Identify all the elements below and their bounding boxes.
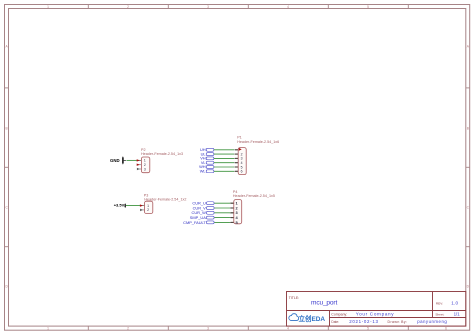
svg-text:1: 1 <box>47 5 49 9</box>
svg-text:Company:: Company: <box>331 312 347 316</box>
svg-text:Header-Female-2.54_1x5: Header-Female-2.54_1x5 <box>233 194 275 198</box>
svg-text:5: 5 <box>367 327 369 331</box>
svg-text:Sheet:: Sheet: <box>435 313 444 317</box>
net label CUR_W <box>192 210 215 215</box>
pin 3 mark <box>137 168 140 171</box>
connector P4 Header-Female-2.54_1x5 <box>230 190 275 225</box>
pin stubs <box>230 203 234 222</box>
wire VL to P1 pin 4 <box>214 162 234 164</box>
connector P2 Header-Female-2.54_1x3 <box>137 148 183 173</box>
svg-text:WL: WL <box>200 169 207 174</box>
svg-text:panyunmeng: panyunmeng <box>417 319 447 324</box>
svg-text:CMP_FAULT: CMP_FAULT <box>183 220 206 225</box>
wire CUR_W to P4 pin 3 <box>214 212 233 214</box>
net label CUR_U <box>192 201 214 206</box>
pin end marks <box>235 150 238 172</box>
svg-text:4: 4 <box>287 327 289 331</box>
net label SMP_UA <box>190 215 214 220</box>
svg-text:3: 3 <box>207 5 209 9</box>
net label CMP_FAULT <box>183 220 214 225</box>
pin 2 mark <box>140 209 143 212</box>
body <box>234 200 242 224</box>
net label VL <box>201 160 214 165</box>
net label WH <box>199 164 214 169</box>
svg-text:1: 1 <box>47 327 49 331</box>
wire SMP_UA to P4 pin 4 <box>214 217 233 219</box>
svg-text:3: 3 <box>144 167 146 171</box>
body <box>141 157 149 173</box>
wire CMP_FAULT to P4 pin 5 <box>214 221 233 223</box>
svg-text:1/1: 1/1 <box>454 312 461 317</box>
connector P3 Header-Female-2.54_1x2 <box>140 194 187 214</box>
svg-text:Header-Female-2.54_1x3: Header-Female-2.54_1x3 <box>141 152 183 156</box>
pin stubs <box>138 160 142 169</box>
svg-text:Header-Female-2.54_1x2: Header-Female-2.54_1x2 <box>144 197 186 201</box>
pin end marks <box>231 203 234 222</box>
wire UH to P1 pin 1 <box>214 149 234 151</box>
svg-text:REV:: REV: <box>436 302 443 306</box>
svg-text:1.0: 1.0 <box>451 301 458 306</box>
svg-text:6: 6 <box>445 327 447 331</box>
net label VH <box>200 156 214 161</box>
pin 1 arrow <box>137 159 140 161</box>
svg-text:+3.5V: +3.5V <box>114 203 125 208</box>
pin 1 arrow <box>140 204 143 206</box>
connector P1 Header-Female-2.54_1x6 <box>234 135 279 174</box>
svg-text:Header-Female-2.54_1x6: Header-Female-2.54_1x6 <box>237 140 279 144</box>
pin 2 arrow <box>137 164 140 166</box>
svg-text:4: 4 <box>287 5 289 9</box>
svg-text:3: 3 <box>207 327 209 331</box>
pin numbers 1 2 <box>147 204 149 212</box>
pin numbers 2 3 4 5 6 <box>241 152 243 173</box>
svg-text:5: 5 <box>367 5 369 9</box>
svg-text:2: 2 <box>127 327 129 331</box>
body <box>145 201 153 213</box>
net label UH <box>200 147 214 152</box>
net flag +3.5V <box>114 203 126 208</box>
wire WL to P1 pin 6 <box>214 170 234 172</box>
wire +3.5V to P3 pin 1 <box>126 205 145 207</box>
svg-text:Your Company: Your Company <box>356 311 395 316</box>
net label UL <box>201 151 214 156</box>
pin numbers 1 2 3 4 5 <box>236 201 239 225</box>
wire CUR_V to P4 pin 2 <box>214 207 233 209</box>
net label CUR_V <box>193 205 215 210</box>
wire VH to P1 pin 3 <box>214 157 234 159</box>
net flag GND <box>110 156 126 164</box>
svg-text:2021-02-13: 2021-02-13 <box>349 319 378 324</box>
svg-text:2: 2 <box>147 208 149 212</box>
svg-text:B: B <box>6 126 8 130</box>
wire CUR_U to P4 pin 1 <box>214 202 233 204</box>
svg-text:2: 2 <box>127 5 129 9</box>
svg-text:TITLE:: TITLE: <box>289 296 300 300</box>
body <box>238 148 246 175</box>
svg-text:Drawn By:: Drawn By: <box>388 320 408 324</box>
net label WL <box>200 169 214 174</box>
wire WH to P1 pin 5 <box>214 166 234 168</box>
pin stubs <box>141 206 145 210</box>
wire UL to P1 pin 2 <box>214 153 234 155</box>
svg-text:Date:: Date: <box>331 320 339 324</box>
svg-text:6: 6 <box>241 170 243 174</box>
svg-text:P1: P1 <box>237 135 242 139</box>
pin stubs <box>234 150 238 172</box>
pin 1 marker <box>239 148 242 151</box>
wire GND to P2 pin 1 <box>127 159 142 161</box>
svg-text:mcu_port: mcu_port <box>311 299 337 306</box>
svg-text:B: B <box>467 126 469 130</box>
pin numbers 1 2 3 <box>144 159 146 172</box>
svg-text:GND: GND <box>110 158 120 163</box>
svg-text:立创EDA: 立创EDA <box>299 314 326 323</box>
